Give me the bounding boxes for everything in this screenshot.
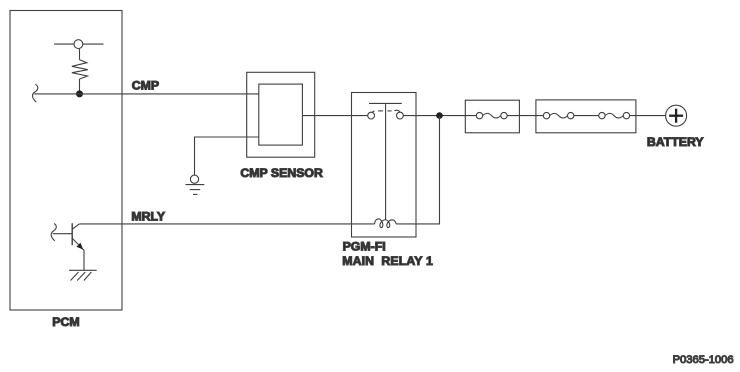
svg-text:P0365-1006: P0365-1006 [673,354,734,366]
fuse box 1 [465,100,519,133]
relay blade (dashed) [372,110,400,112]
ground terminal circle [190,175,198,183]
fuse box 2 [536,100,636,133]
fuse 1 element [476,112,507,118]
relay contact right [397,112,404,119]
transistor Q (PCM driver) base bar [71,223,73,245]
relay mechanical link [385,103,387,219]
wire sensor ground lead [195,137,259,175]
svg-text:BATTERY: BATTERY [647,135,704,149]
wire circle to resistor [79,49,81,60]
wire break symbol (CMP pin lead) [32,84,37,102]
PGM-FI main relay 1 box [352,93,417,238]
svg-text:MRLY: MRLY [131,209,165,223]
wire sensor output to relay contact [302,115,367,117]
fuse 2a element [543,112,574,118]
svg-text:PCM: PCM [52,315,79,329]
battery positive terminal [666,105,687,126]
wire MRLY (coil to PCM transistor) [79,223,374,225]
junction node (relay output / coil feed) [436,112,443,119]
wire internal supply rail [54,43,103,45]
wire fuse box 2 to battery [630,115,666,117]
relay coil [375,219,397,228]
svg-text:MAIN RELAY 1: MAIN RELAY 1 [342,254,433,268]
transistor emitter arrow [76,243,83,250]
resistor (pull-up) [72,60,88,79]
transistor collector [72,224,79,229]
svg-text:PGM-FI: PGM-FI [343,240,386,254]
CMP sensor outer box [247,72,315,157]
wire transistor base lead [53,233,72,235]
junction node CMP (solder dot) [76,90,83,97]
wire between fuse 2a and 2b [574,115,599,117]
relay armature bar [369,102,402,104]
PCM box [10,11,122,311]
fuse 2b element [599,112,630,118]
earth ground symbol [186,185,205,195]
wire relay to fuse 1 [403,115,476,117]
svg-text:CMP SENSOR: CMP SENSOR [240,166,323,180]
relay contact left [368,112,375,119]
wire CMP (PCM to sensor) [34,93,258,95]
svg-text:CMP: CMP [132,79,159,93]
wire fuse box 1 to fuse box 2 [507,115,543,117]
connector terminal circle (pull-up supply) [74,40,83,49]
wire break symbol (MRLY pin lead) [51,224,56,241]
chassis ground (PCM) [69,270,97,280]
wire resistor to CMP node [79,79,81,94]
wire junction down to relay coil [396,116,440,224]
transistor emitter [72,238,84,270]
CMP sensor inner box [259,84,303,145]
